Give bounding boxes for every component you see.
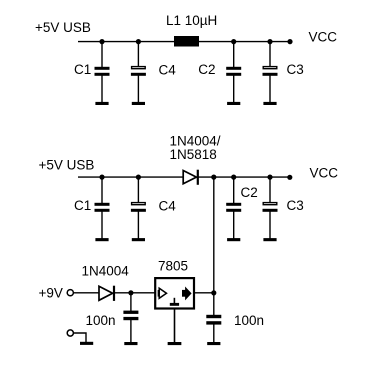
capacitor C1 (top) [95,42,110,103]
node junction C1 top [99,39,104,44]
svg-text:C1: C1 [74,62,91,77]
regulator input arrow (hollow) [159,288,167,298]
node junction to 7805 branch [211,175,216,180]
capacitor output 100n [206,293,221,343]
ground output cap [207,342,220,345]
node junction C4 middle [136,175,141,180]
wire middle +5V rail left of diode [78,176,183,178]
node junction output cap [211,290,216,295]
node junction C2 top [231,39,236,44]
label C4 (top) [159,63,177,78]
value label 1N5818 [170,147,217,162]
svg-text:C3: C3 [287,198,304,213]
ground C2 (top) [227,102,240,105]
label C4 (middle) [159,199,177,214]
value label 100n (output) [234,313,264,328]
label C3 (top) [287,62,304,77]
terminal +9V open circle [67,290,73,296]
svg-text:+5V USB: +5V USB [39,158,95,173]
ground C4 (middle) [132,238,145,241]
capacitor C2 (middle) [226,177,241,239]
capacitor C4 electrolytic (top) [131,42,146,103]
capacitor input 100n [123,293,138,343]
svg-text:+5V USB: +5V USB [35,20,91,35]
capacitor C3 electrolytic (top) [263,42,278,103]
ground C4 (top) [132,102,145,105]
wire middle rail right of diode [198,176,290,178]
regulator ground pin wire [174,309,176,343]
ground return terminal [80,342,93,345]
svg-text:+9V: +9V [39,285,63,300]
terminal 0V return open circle [67,330,73,336]
ground C2 (middle) [227,238,240,241]
wire regulator output [195,292,214,294]
ground C3 (middle) [263,238,276,241]
net label +5V USB (middle circuit) [39,158,95,173]
svg-text:C1: C1 [74,198,91,213]
capacitor C2 (top) [226,42,241,103]
value label 1N4004 (bottom) [82,264,130,279]
ground C1 (middle) [95,238,108,241]
label 7805 [158,258,188,273]
net label +9V [39,285,63,300]
net label VCC (middle circuit) [310,166,339,181]
wire +9V to diode [74,292,99,294]
svg-text:C2: C2 [241,185,258,200]
node junction C4 top [136,39,141,44]
node junction input cap [128,290,133,295]
node junction C2 middle [231,175,236,180]
wire branch down to 7805 [213,177,215,293]
svg-text:VCC: VCC [310,166,339,181]
ground C1 (top) [95,102,108,105]
diode D1 1N4004/1N5818 [183,170,198,185]
value label L1 10uH [166,13,217,28]
svg-text:C4: C4 [159,199,177,214]
node VCC terminal top [287,39,292,44]
label C1 (top) [74,62,91,77]
ground input cap [124,342,137,345]
net label +5V USB (top circuit) [35,20,91,35]
ground regulator pin [168,342,182,345]
label C2 (middle) [241,185,258,200]
svg-text:7805: 7805 [158,258,188,273]
node junction C3 middle [267,175,272,180]
node junction C1 middle [99,175,104,180]
diode D2 1N4004 [99,286,114,301]
inductor L1 [174,36,199,47]
svg-text:1N5818: 1N5818 [170,147,217,162]
wire top +5V rail [78,41,290,43]
svg-text:100n: 100n [234,313,264,328]
label C3 (middle) [287,198,304,213]
wire diode to regulator [114,292,155,294]
svg-text:1N4004: 1N4004 [82,264,130,279]
label C1 (middle) [74,198,91,213]
regulator output arrow (solid) [182,288,191,299]
capacitor C3 electrolytic (middle) [263,177,278,239]
capacitor C4 electrolytic (middle) [131,177,146,239]
svg-text:C4: C4 [159,63,177,78]
node VCC terminal middle [287,175,292,180]
wire return terminal to ground [74,333,86,343]
net label VCC (top circuit) [309,30,338,45]
regulator internal ground symbol [170,298,179,306]
value label 100n (input) [86,313,116,328]
ground C3 (top) [263,102,276,105]
regulator U1 7805 box [155,278,194,308]
svg-text:100n: 100n [86,313,116,328]
label C2 (top) [198,62,215,77]
svg-text:L1 10µH: L1 10µH [166,13,217,28]
value label 1N4004/ [170,134,221,149]
node junction C3 top [267,39,272,44]
svg-text:C2: C2 [198,62,215,77]
capacitor C1 (middle) [95,177,110,239]
svg-text:C3: C3 [287,62,304,77]
svg-text:VCC: VCC [309,30,338,45]
